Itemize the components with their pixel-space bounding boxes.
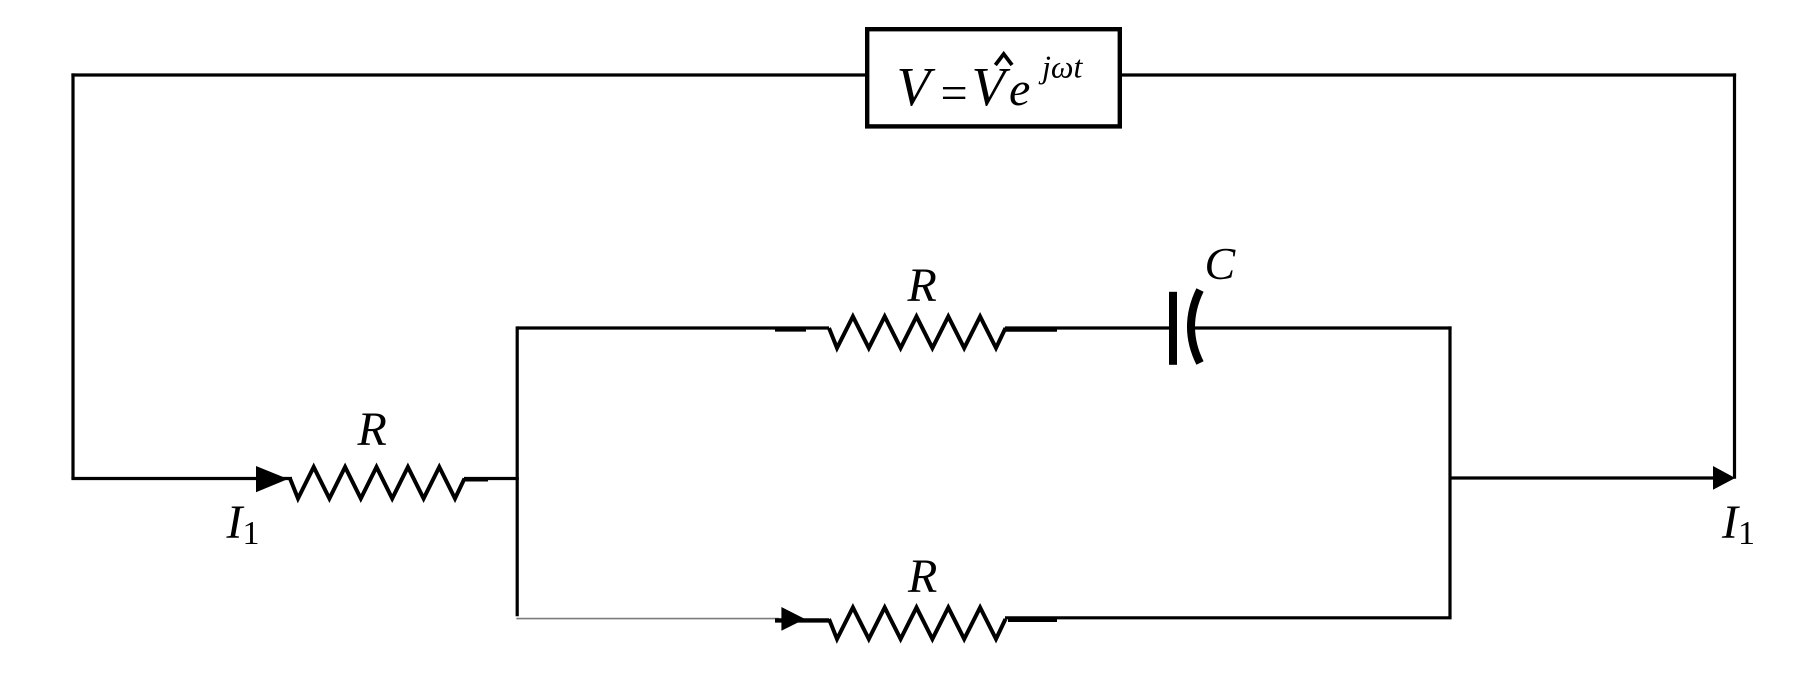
svg-text:R: R [907,550,937,603]
wire from capacitor to node B [1192,326,1452,329]
wire lower branch from R3 to node B [1005,616,1452,619]
resistor R1 (main) [290,467,465,499]
svg-text:R: R [907,259,937,312]
wire upper branch from node A to R2 [517,326,829,329]
voltage source V box [867,29,1120,126]
wire middle right from node B to right vertical [1450,476,1716,479]
node A left junction vertical [516,326,519,616]
wire R2 right lead stub [1006,327,1057,331]
wire lower branch thin gray from node A [516,618,779,620]
wire R3 right lead stub [1008,618,1057,622]
capacitor C left plate [1169,292,1177,365]
capacitor C right curved plate [1191,290,1200,363]
svg-text:R: R [357,403,387,456]
wire from R2 to capacitor C [1005,326,1170,329]
wire top-left horizontal from left vertical to source box [71,73,865,76]
hat accent over V [997,54,1011,64]
wire R1 right lead stub [464,477,488,481]
arrow I1 left [256,466,288,492]
wire right vertical [1733,73,1736,478]
wire R3 left lead under arrow [775,618,829,622]
wire R2 left lead stub [775,327,806,331]
wire left vertical [71,73,74,478]
arrow lower branch [781,607,805,631]
resistor R2 (upper branch) [829,317,1006,349]
wire from R1 to node A [464,477,519,480]
arrow I1 right [1713,466,1735,490]
node B right junction vertical [1448,326,1451,616]
resistor R3 (lower branch) [829,608,1006,640]
wire top-right horizontal from source box to right vertical [1122,73,1736,76]
wire main horizontal left (node I1 in) [71,477,292,480]
svg-text:C: C [1205,238,1237,289]
